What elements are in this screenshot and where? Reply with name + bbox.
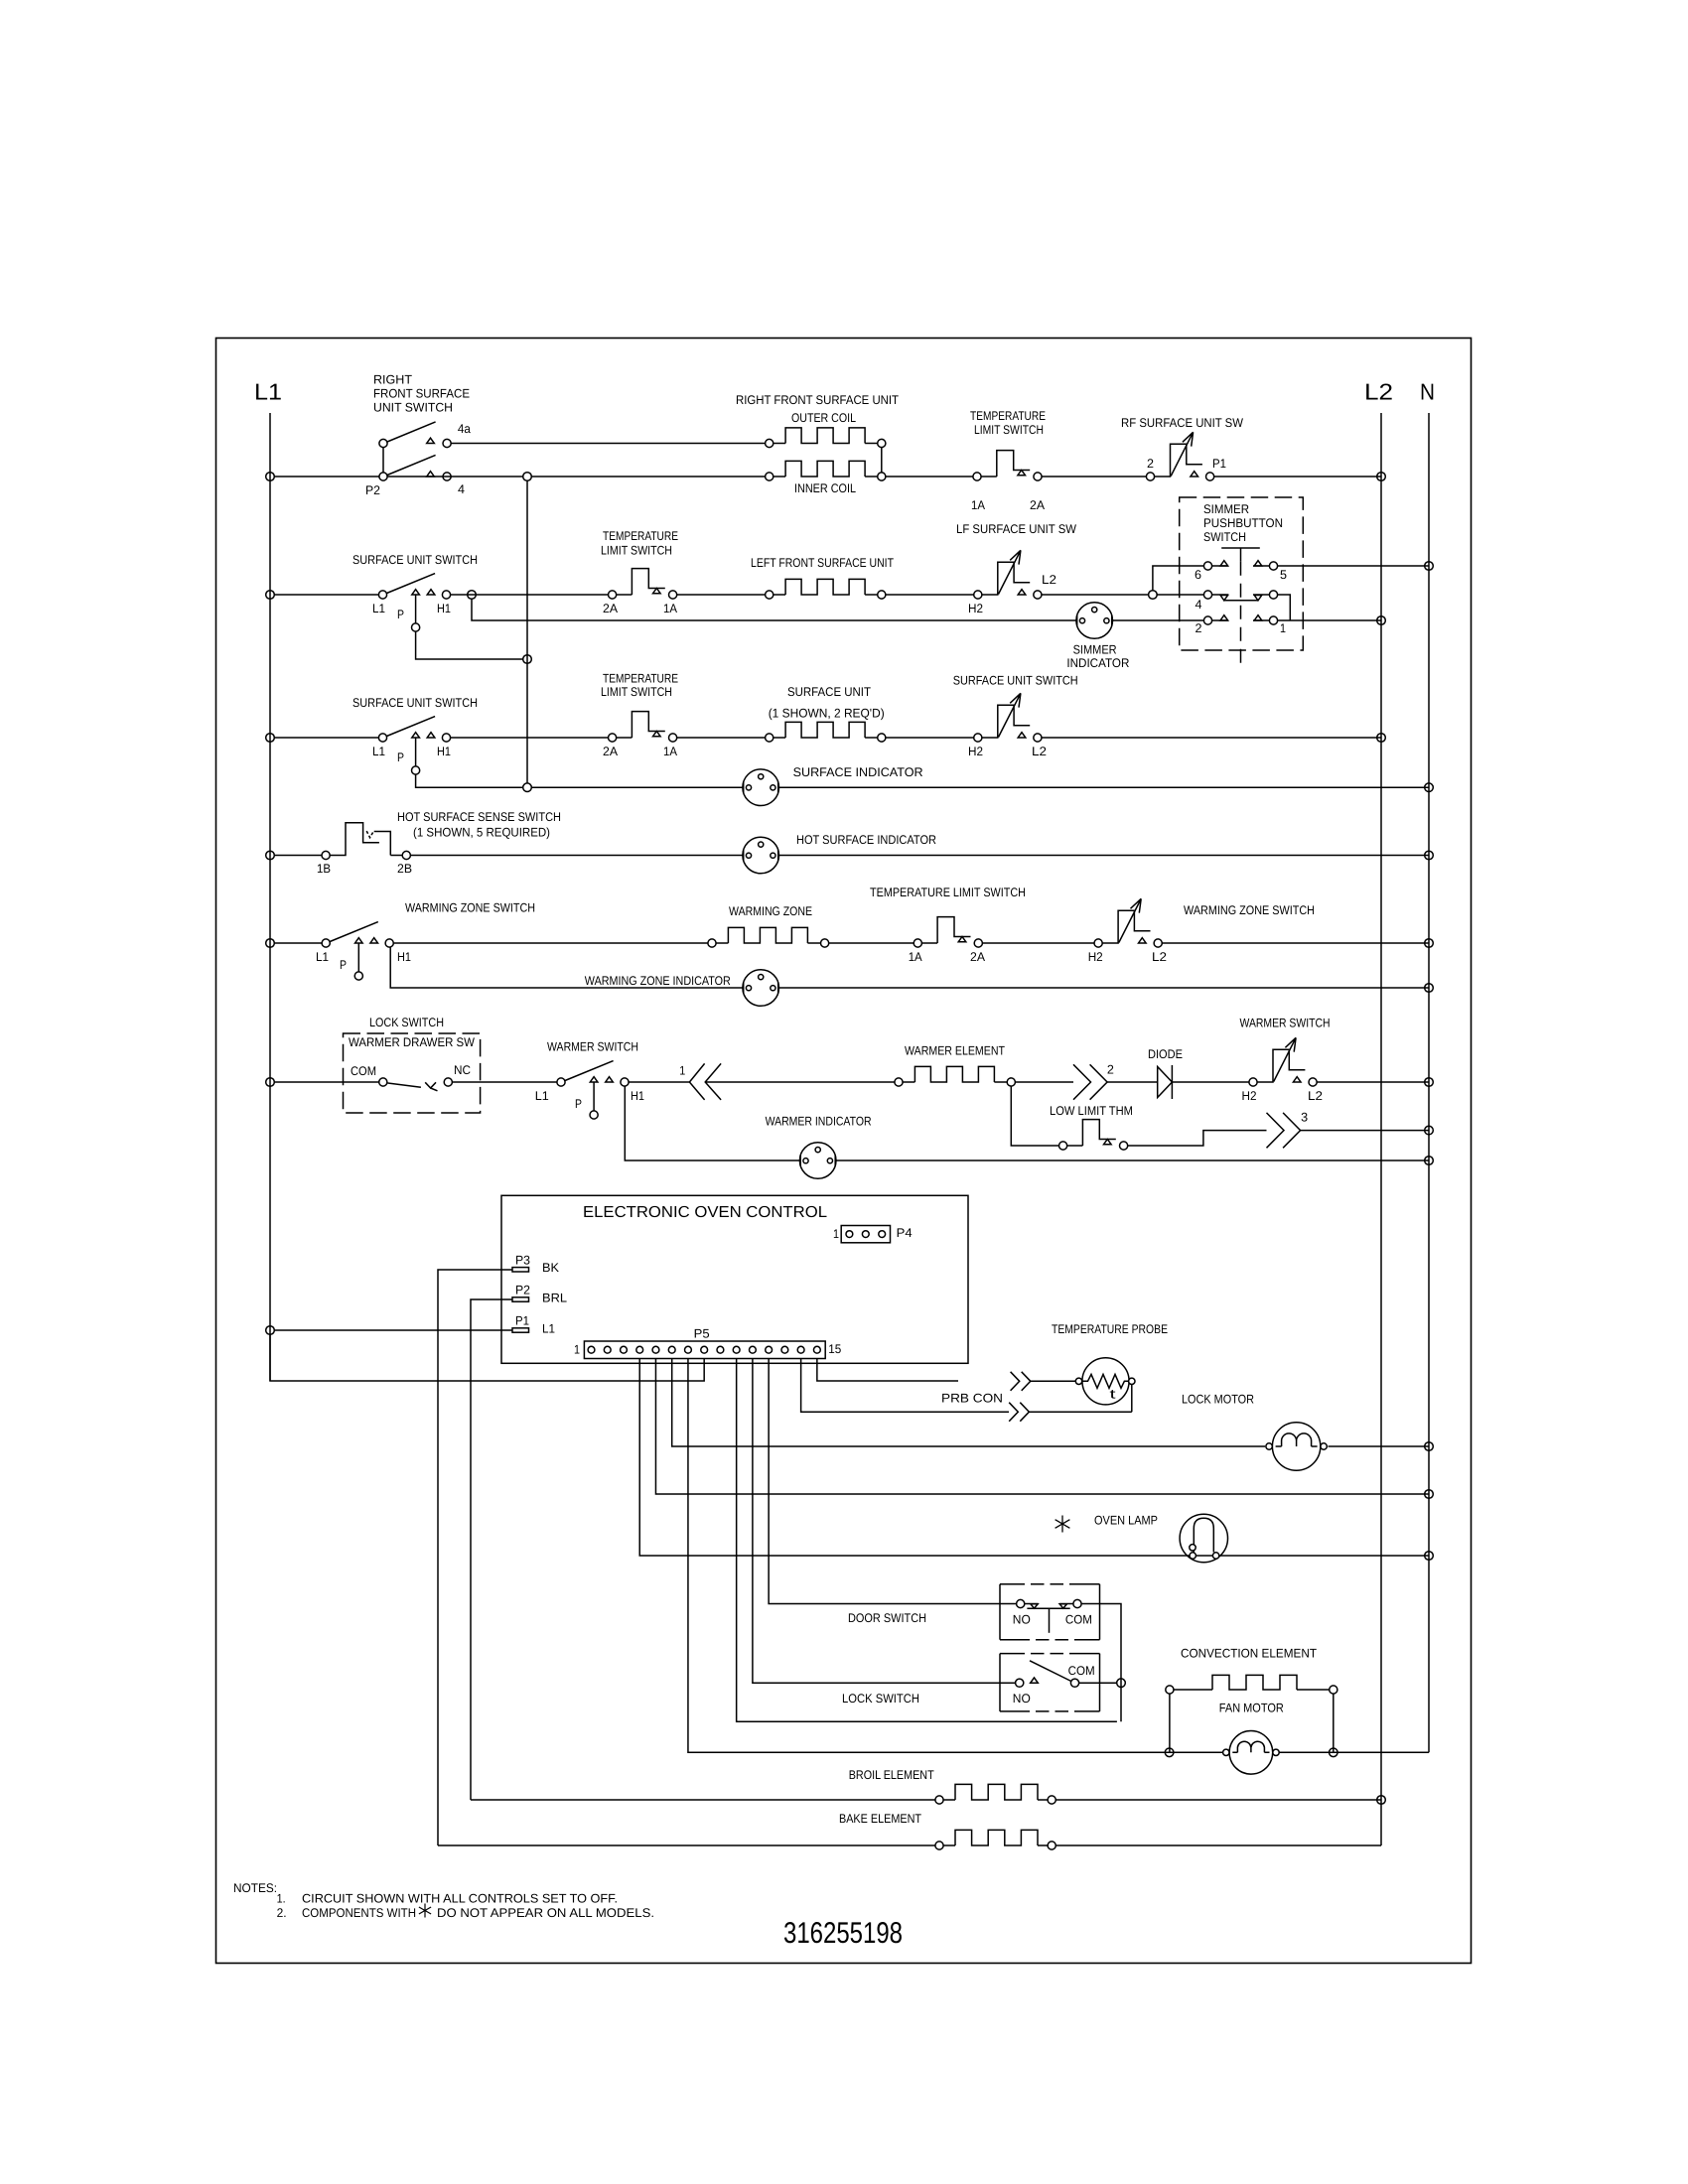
switch contact bbox=[1249, 1078, 1257, 1086]
wire pin 6 to lock motor bbox=[672, 1359, 1265, 1447]
pushbutton contact 6 bbox=[1203, 562, 1211, 570]
pin label P bbox=[397, 751, 404, 764]
svg-text:PUSHBUTTON: PUSHBUTTON bbox=[1203, 516, 1283, 530]
junction L2 broil bbox=[1377, 1796, 1386, 1805]
wire bbox=[886, 737, 974, 739]
wire 4b elbow to row 1 bbox=[1278, 595, 1291, 620]
svg-text:RIGHT FRONT SURFACE UNIT: RIGHT FRONT SURFACE UNIT bbox=[736, 393, 899, 407]
switch triangle bbox=[606, 1077, 614, 1082]
wire pin 7 to fan row bbox=[688, 1359, 1222, 1753]
label TEMPERATURE LIMIT SWITCH bbox=[970, 409, 1046, 437]
switch contact bbox=[1154, 939, 1162, 947]
junction L2 simmer row bbox=[1377, 616, 1386, 625]
switch blade bbox=[387, 717, 436, 737]
label WARMER DRAWER SW bbox=[349, 1035, 475, 1049]
notes text bbox=[233, 1881, 654, 1920]
pin label L2 bbox=[1152, 950, 1167, 964]
heating element coil bbox=[785, 461, 865, 477]
pin label 1A bbox=[909, 950, 923, 964]
connector P4 bbox=[841, 1226, 890, 1243]
thermal switch contact bbox=[669, 591, 677, 599]
svg-text:4a: 4a bbox=[458, 422, 471, 436]
thermal switch contact bbox=[914, 939, 921, 947]
label CONVECTION ELEMENT bbox=[1181, 1646, 1317, 1660]
junction L2 row C bbox=[1377, 734, 1386, 743]
junction L1 row D bbox=[266, 851, 275, 860]
wire L1 to P1 bbox=[274, 1329, 512, 1331]
svg-text:BK: BK bbox=[542, 1261, 560, 1275]
pin label 2 bbox=[1147, 457, 1154, 471]
wire bbox=[274, 476, 379, 478]
switch frame bbox=[1102, 910, 1150, 943]
switch contact P bbox=[590, 1111, 598, 1119]
svg-text:SWITCH: SWITCH bbox=[1203, 530, 1246, 544]
element terminal bbox=[766, 439, 774, 447]
border frame bbox=[216, 339, 1472, 1964]
wire low limit to chevron 3 bbox=[1127, 1131, 1266, 1146]
svg-text:P4: P4 bbox=[897, 1226, 913, 1240]
pin label L1 bbox=[372, 602, 385, 615]
wire P drop row C bbox=[416, 774, 523, 787]
triangle down bbox=[1254, 596, 1262, 601]
wire bbox=[677, 737, 766, 739]
pin label COM bbox=[1068, 1664, 1095, 1678]
warming zone indicator lamp bbox=[743, 970, 779, 1007]
svg-text:1: 1 bbox=[833, 1227, 839, 1241]
terminal P3 bbox=[512, 1268, 529, 1272]
thermal switch triangle bbox=[653, 732, 661, 737]
lock switch bbox=[1031, 1678, 1039, 1683]
svg-text:COM: COM bbox=[351, 1064, 376, 1078]
pushbutton bridge 4 bbox=[1224, 600, 1258, 602]
svg-text:DO NOT APPEAR ON ALL MODELS.: DO NOT APPEAR ON ALL MODELS. bbox=[437, 1906, 654, 1920]
svg-text:1A: 1A bbox=[663, 602, 678, 615]
element terminal bbox=[878, 734, 886, 742]
wire bbox=[677, 594, 766, 596]
junction L1 end bbox=[266, 1326, 275, 1335]
svg-text:15: 15 bbox=[828, 1342, 841, 1356]
pin label 2A bbox=[603, 602, 619, 615]
label WARMER SWITCH right bbox=[1240, 1017, 1331, 1030]
pin label H1 bbox=[631, 1089, 644, 1103]
terminal P1 bbox=[512, 1328, 529, 1332]
temperature probe bbox=[1082, 1358, 1129, 1405]
warmer indicator lamp bbox=[799, 1143, 836, 1179]
pin label 15 P5 bbox=[828, 1342, 841, 1356]
line 6 bbox=[1212, 565, 1228, 567]
wire bbox=[886, 476, 973, 478]
wire indicator to N bbox=[778, 786, 1429, 788]
label SURFACE UNIT SWITCH row B bbox=[352, 553, 478, 567]
svg-text:H1: H1 bbox=[397, 950, 411, 964]
pin label P2 bbox=[365, 483, 380, 497]
svg-text:L1: L1 bbox=[254, 379, 282, 405]
switch frame bbox=[982, 705, 1030, 738]
wire convection right drop bbox=[1333, 1694, 1335, 1752]
svg-text:5: 5 bbox=[1280, 568, 1287, 582]
svg-text:LOCK MOTOR: LOCK MOTOR bbox=[1182, 1393, 1254, 1407]
wire pin 12 to door switch bbox=[769, 1359, 1017, 1604]
svg-text:CONVECTION ELEMENT: CONVECTION ELEMENT bbox=[1181, 1646, 1317, 1660]
label RIGHT FRONT SURFACE UNIT bbox=[736, 393, 899, 407]
pushbutton contact 4b bbox=[1269, 591, 1277, 599]
svg-text:2A: 2A bbox=[603, 745, 619, 758]
fan motor bbox=[1229, 1731, 1273, 1775]
element terminal bbox=[821, 939, 829, 947]
switch triangle bbox=[412, 733, 420, 738]
triangle bbox=[1220, 561, 1228, 566]
label WARMER SWITCH left bbox=[547, 1040, 638, 1054]
wire to P contact bbox=[357, 943, 359, 972]
label LOW LIMIT THM bbox=[1050, 1104, 1133, 1118]
svg-text:COM: COM bbox=[1065, 1613, 1092, 1627]
thermal switch bridge bbox=[937, 917, 970, 943]
svg-text:t: t bbox=[1110, 1387, 1117, 1402]
svg-text:4: 4 bbox=[1196, 598, 1202, 612]
pin label H1 bbox=[397, 950, 411, 964]
label WARMING ZONE bbox=[729, 904, 812, 918]
thermal switch bridge bbox=[1082, 1120, 1115, 1146]
asterisk bbox=[1055, 1516, 1070, 1533]
svg-text:BROIL ELEMENT: BROIL ELEMENT bbox=[849, 1768, 934, 1782]
svg-text:PRB CON: PRB CON bbox=[941, 1392, 1003, 1406]
junction N chevron3 row bbox=[1425, 1126, 1434, 1135]
junction N surface indicator bbox=[1425, 783, 1434, 792]
thermal switch triangle bbox=[958, 937, 966, 942]
svg-text:6: 6 bbox=[1195, 568, 1201, 582]
junction N hot surface bbox=[1425, 851, 1434, 860]
svg-text:L1: L1 bbox=[542, 1321, 555, 1335]
wire bbox=[886, 594, 974, 596]
wire bbox=[451, 443, 765, 445]
svg-text:TEMPERATURE LIMIT SWITCH: TEMPERATURE LIMIT SWITCH bbox=[870, 886, 1026, 899]
node L2 label bbox=[1364, 379, 1393, 405]
label SURFACE INDICATOR bbox=[793, 765, 923, 779]
wire bbox=[1162, 942, 1429, 944]
thermal switch contact bbox=[1034, 473, 1042, 480]
wire bbox=[865, 476, 878, 478]
label SURFACE UNIT SWITCH right bbox=[953, 674, 1078, 688]
junction N oven lamp bbox=[1425, 1552, 1434, 1561]
svg-text:RIGHT: RIGHT bbox=[373, 373, 412, 387]
label SIMMER PUSHBUTTON SWITCH bbox=[1203, 502, 1283, 544]
svg-text:L1: L1 bbox=[535, 1089, 549, 1103]
svg-text:COM: COM bbox=[1068, 1664, 1095, 1678]
warmer drawer switch NC bbox=[388, 1082, 438, 1091]
pin label H1 bbox=[437, 602, 451, 615]
wire bbox=[451, 737, 609, 739]
label P5 bbox=[694, 1327, 710, 1341]
wire bbox=[1055, 1844, 1381, 1846]
switch triangle bbox=[1018, 733, 1026, 738]
svg-text:INNER COIL: INNER COIL bbox=[794, 481, 856, 495]
switch frame bbox=[1257, 1049, 1305, 1082]
line 5 bbox=[1253, 565, 1269, 567]
junction x531 row B P bbox=[523, 655, 532, 664]
switch blade bbox=[330, 922, 378, 942]
pin label NO bbox=[1013, 1613, 1031, 1627]
svg-text:WARMER SWITCH: WARMER SWITCH bbox=[547, 1040, 638, 1054]
pin label L2 bbox=[1032, 745, 1047, 758]
bus N bbox=[1428, 413, 1430, 1752]
pin label NO bbox=[1013, 1692, 1031, 1706]
wire bbox=[1055, 1799, 1381, 1801]
wire H1 drop to indicator row bbox=[390, 947, 743, 988]
wire bbox=[629, 1081, 689, 1083]
label WARMING ZONE INDICATOR bbox=[585, 974, 731, 988]
wire bbox=[982, 942, 1094, 944]
heating element coil bbox=[728, 927, 807, 943]
pushbutton actuator T bbox=[1221, 548, 1260, 562]
thermal switch bridge bbox=[632, 569, 664, 595]
svg-text:L2: L2 bbox=[1308, 1089, 1323, 1103]
svg-text:1: 1 bbox=[1280, 621, 1286, 635]
svg-text:L1: L1 bbox=[372, 602, 385, 615]
label TEMPERATURE LIMIT SWITCH row C bbox=[601, 672, 678, 700]
switch contact P bbox=[412, 623, 420, 631]
label LOCK MOTOR bbox=[1182, 1393, 1254, 1407]
heating element coil bbox=[785, 428, 865, 444]
svg-text:(1 SHOWN, 2 REQ'D): (1 SHOWN, 2 REQ'D) bbox=[769, 707, 885, 721]
wire bbox=[394, 942, 708, 944]
svg-text:2B: 2B bbox=[397, 862, 412, 876]
element terminal bbox=[895, 1078, 903, 1086]
wire bbox=[617, 737, 633, 739]
wire to P contact bbox=[415, 595, 417, 623]
svg-text:DOOR SWITCH: DOOR SWITCH bbox=[848, 1611, 926, 1625]
switch contact bbox=[1146, 473, 1154, 480]
wire L1 to pin 8 bbox=[270, 1334, 704, 1381]
svg-text:ELECTRONIC OVEN CONTROL: ELECTRONIC OVEN CONTROL bbox=[583, 1204, 827, 1221]
lock switch box bbox=[999, 1654, 1001, 1711]
svg-text:NOTES:: NOTES: bbox=[233, 1881, 277, 1895]
bus L1 bbox=[269, 413, 271, 1381]
wire P to junction x531 bbox=[416, 631, 523, 659]
svg-text:H2: H2 bbox=[968, 602, 983, 615]
heating element coil bbox=[785, 722, 865, 738]
pin label 4a bbox=[458, 422, 471, 436]
pin label H2 bbox=[1242, 1089, 1257, 1103]
svg-text:WARMER SWITCH: WARMER SWITCH bbox=[1240, 1017, 1331, 1030]
svg-text:1B: 1B bbox=[317, 862, 331, 876]
svg-text:TEMPERATURE: TEMPERATURE bbox=[603, 672, 678, 686]
connector chevrons 3 bbox=[1267, 1113, 1285, 1148]
svg-text:NO: NO bbox=[1013, 1613, 1031, 1627]
wire bbox=[1107, 1081, 1158, 1083]
wire contact1 to L2 bbox=[1278, 619, 1381, 621]
bus L2 bbox=[1380, 413, 1382, 1845]
switch RF surface unit switch (P2/4/4a) bbox=[382, 448, 384, 473]
label BK bbox=[542, 1261, 560, 1275]
door switch bbox=[1025, 1603, 1039, 1605]
label SURFACE UNIT bbox=[769, 685, 885, 721]
switch triangle bbox=[412, 590, 420, 595]
element bake bbox=[943, 1844, 955, 1846]
element terminal bbox=[766, 473, 774, 480]
wire pin 10 to junction bbox=[737, 1359, 1117, 1722]
pin label 1B bbox=[317, 862, 331, 876]
wire bbox=[774, 443, 785, 445]
svg-text:CIRCUIT SHOWN WITH ALL CONTROL: CIRCUIT SHOWN WITH ALL CONTROLS SET TO O… bbox=[302, 1892, 618, 1906]
pin label 1 bbox=[1280, 621, 1286, 635]
svg-text:316255198: 316255198 bbox=[783, 1917, 903, 1950]
switch frame bbox=[1155, 444, 1202, 477]
element terminal bbox=[766, 734, 774, 742]
pin label 2A bbox=[970, 950, 986, 964]
wire bbox=[994, 1081, 1007, 1083]
pin label 2 bbox=[1196, 621, 1202, 635]
pin label 1 P5 bbox=[574, 1343, 580, 1357]
switch contact bbox=[1034, 591, 1042, 599]
wire door switch COM drop bbox=[1081, 1604, 1121, 1722]
door switch box bbox=[999, 1584, 1001, 1640]
junction row A x531 bbox=[523, 473, 532, 481]
svg-text:L2: L2 bbox=[1042, 573, 1056, 587]
node L1 label bbox=[254, 379, 282, 405]
switch triangle bbox=[355, 938, 363, 943]
wire bbox=[1067, 1145, 1083, 1147]
svg-text:HOT SURFACE INDICATOR: HOT SURFACE INDICATOR bbox=[796, 833, 936, 847]
junction L1 row E bbox=[266, 939, 275, 948]
thermal switch triangle bbox=[653, 589, 661, 594]
label TEMPERATURE PROBE bbox=[1052, 1322, 1168, 1336]
svg-text:P5: P5 bbox=[694, 1327, 710, 1341]
wire to P contact bbox=[593, 1082, 595, 1111]
pin label 2B bbox=[397, 862, 412, 876]
pin label P bbox=[340, 958, 347, 972]
wire bbox=[1042, 737, 1381, 739]
wire bbox=[1317, 1081, 1429, 1083]
junction row B to simmer 6 bbox=[1149, 591, 1158, 600]
svg-text:P: P bbox=[340, 958, 347, 972]
label TEMPERATURE LIMIT SWITCH row B bbox=[601, 529, 678, 558]
wire H1 junction bbox=[468, 591, 477, 600]
wire bbox=[778, 987, 1429, 989]
element terminal bbox=[878, 591, 886, 599]
surface indicator lamp bbox=[743, 769, 779, 806]
wire pin 15 to probe connector bbox=[817, 1359, 958, 1382]
wire H1 drop to simmer indicator bbox=[472, 599, 1077, 620]
switch blade bbox=[387, 574, 436, 594]
element broil bbox=[943, 1799, 955, 1801]
svg-text:1A: 1A bbox=[971, 498, 986, 512]
switch triangle bbox=[370, 938, 378, 943]
svg-text:H1: H1 bbox=[437, 745, 451, 758]
junction N simmer 5 bbox=[1425, 562, 1434, 571]
pin label P1 bbox=[1212, 457, 1226, 471]
label RIGHT FRONT SURFACE UNIT SWITCH bbox=[373, 373, 470, 415]
label HOT SURFACE INDICATOR bbox=[796, 833, 936, 847]
electronic oven control box bbox=[501, 1195, 968, 1363]
label TEMPERATURE LIMIT SWITCH row E bbox=[870, 886, 1026, 899]
svg-text:H2: H2 bbox=[968, 745, 983, 758]
switch contact L1 bbox=[378, 591, 386, 599]
label BRL bbox=[542, 1292, 567, 1305]
wire bbox=[1157, 594, 1203, 596]
oven lamp bbox=[1180, 1514, 1227, 1562]
label LF SURFACE UNIT SW bbox=[956, 522, 1076, 536]
label L1 bbox=[542, 1321, 555, 1335]
wire bbox=[903, 1081, 914, 1083]
label WARMING ZONE SWITCH bbox=[405, 901, 535, 915]
wire bbox=[865, 594, 878, 596]
terminal P2 bbox=[512, 1297, 529, 1301]
connector chevrons 2 bbox=[1073, 1064, 1091, 1099]
svg-text:UNIT SWITCH: UNIT SWITCH bbox=[373, 401, 453, 415]
switch contact H1 bbox=[442, 734, 450, 742]
wire probe right drop bbox=[1131, 1385, 1133, 1413]
svg-text:WARMER INDICATOR: WARMER INDICATOR bbox=[766, 1115, 872, 1129]
lock motor bbox=[1272, 1423, 1320, 1470]
label PRB CON bbox=[941, 1392, 1003, 1406]
svg-text:2: 2 bbox=[1107, 1063, 1114, 1077]
pin label P bbox=[397, 608, 404, 621]
svg-text:P: P bbox=[397, 751, 404, 764]
junction N row E bbox=[1425, 939, 1434, 948]
heating element coil bbox=[785, 579, 865, 595]
switch blade with arrow bbox=[1171, 432, 1193, 476]
simmer pushbutton switch box bbox=[1180, 497, 1304, 650]
label P1 bbox=[515, 1314, 529, 1328]
line 2 bbox=[1212, 619, 1228, 621]
label HOT SURFACE SENSE SWITCH bbox=[397, 810, 561, 840]
pin label 2A bbox=[1030, 498, 1046, 512]
switch contact bbox=[974, 591, 982, 599]
wire pin 14 to probe connector 2 bbox=[801, 1359, 1009, 1413]
switch contact P bbox=[412, 766, 420, 774]
pushbutton contact 2 bbox=[1203, 616, 1211, 624]
pin label H2 bbox=[968, 745, 983, 758]
label DOOR SWITCH bbox=[848, 1611, 926, 1625]
switch triangle bbox=[590, 1077, 598, 1082]
junction N pin5 row bbox=[1425, 1490, 1434, 1499]
wire bbox=[774, 737, 785, 739]
label BAKE ELEMENT bbox=[839, 1812, 921, 1826]
convection element bbox=[1174, 1689, 1212, 1691]
wire bbox=[1301, 1130, 1429, 1132]
svg-text:2A: 2A bbox=[603, 602, 619, 615]
label P3 bbox=[515, 1254, 530, 1268]
wire bbox=[865, 737, 878, 739]
pin label 1A bbox=[663, 745, 678, 758]
triangle bbox=[1254, 615, 1262, 620]
svg-text:WARMING ZONE SWITCH: WARMING ZONE SWITCH bbox=[405, 901, 535, 915]
wire BK to bake element bbox=[438, 1844, 935, 1846]
triangle bbox=[1220, 615, 1228, 620]
element terminal bbox=[878, 439, 886, 447]
thermal switch contact bbox=[609, 734, 617, 742]
label DIODE bbox=[1148, 1047, 1183, 1061]
label BROIL ELEMENT bbox=[849, 1768, 934, 1782]
thermal switch contact bbox=[973, 473, 981, 480]
svg-text:RF SURFACE UNIT SW: RF SURFACE UNIT SW bbox=[1121, 416, 1243, 430]
wire bbox=[387, 476, 523, 478]
element terminal bbox=[878, 473, 886, 480]
svg-text:FAN MOTOR: FAN MOTOR bbox=[1219, 1702, 1284, 1715]
svg-text:P2: P2 bbox=[515, 1284, 530, 1297]
wire bbox=[1031, 1380, 1076, 1382]
switch contact H1 bbox=[442, 591, 450, 599]
wire link outer/inner bbox=[881, 448, 883, 473]
wire bbox=[705, 1081, 895, 1083]
wire bbox=[1015, 1081, 1073, 1083]
pin label H1 bbox=[437, 745, 451, 758]
svg-text:P1: P1 bbox=[515, 1314, 529, 1328]
svg-text:NO: NO bbox=[1013, 1692, 1031, 1706]
svg-text:LOCK SWITCH: LOCK SWITCH bbox=[842, 1692, 919, 1706]
element terminal bbox=[766, 591, 774, 599]
label RF SURFACE UNIT SW bbox=[1121, 416, 1243, 430]
